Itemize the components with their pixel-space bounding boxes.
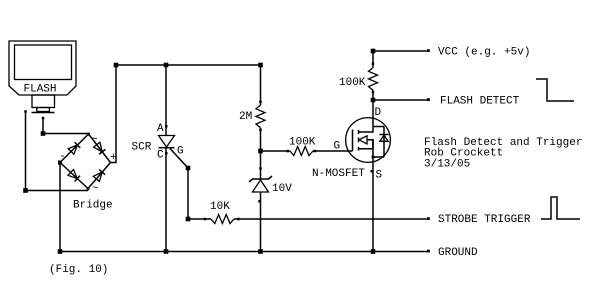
terminal dot source <box>371 170 374 173</box>
node divider junction <box>258 149 263 154</box>
svg-text:FLASH: FLASH <box>24 84 57 96</box>
wire ground rail <box>60 251 429 253</box>
bridge rectifier edge bottom-right <box>88 163 111 189</box>
junction ground-zener <box>258 249 263 254</box>
svg-text:G: G <box>177 146 184 158</box>
mosfet Q1 body diode triangle <box>380 135 388 141</box>
SCR U1 cathode bar <box>159 147 175 149</box>
wire to bridge AC top vertex <box>43 133 89 135</box>
wire flash detect line <box>373 99 429 101</box>
mosfet Q1 body diode link bottom <box>373 156 384 158</box>
junction ground-source <box>371 249 376 254</box>
junction source-body diode <box>372 156 375 159</box>
svg-text:-: - <box>59 151 66 163</box>
wire top rail <box>116 64 261 66</box>
mosfet Q1 channel dash drain <box>358 130 360 134</box>
terminal dot R1 left <box>204 218 207 221</box>
terminal tick ground stub end <box>427 250 430 253</box>
svg-text:FLASH DETECT: FLASH DETECT <box>440 96 520 108</box>
node AC top vertex dot <box>87 133 90 136</box>
mosfet Q1 body arrow <box>359 136 367 144</box>
terminal dot flash left lead <box>24 110 27 113</box>
junction ground-bridge <box>58 249 63 254</box>
terminal dot zener bottom <box>258 200 261 203</box>
bridge rectifier edge top-left <box>60 134 89 163</box>
diode D1 upper-left (minus to AC top) <box>68 142 80 154</box>
mosfet Q1 channel dash source <box>358 147 360 151</box>
svg-text:10K: 10K <box>210 201 230 213</box>
svg-text:3/13/05: 3/13/05 <box>424 158 470 170</box>
mosfet Q1 channel dash body <box>358 138 360 143</box>
SCR U1 triangle <box>159 136 175 148</box>
wire bridge plus up to top rail <box>111 65 117 163</box>
junction SCR anode on top rail <box>164 63 169 68</box>
resistor R3 100K zigzag <box>290 147 313 156</box>
SCR gate lead diagonal <box>170 149 188 169</box>
junction left rail corner <box>23 188 28 193</box>
wire to resistor R1 <box>188 218 211 220</box>
svg-text:G: G <box>334 141 341 153</box>
svg-text:(Fig. 10): (Fig. 10) <box>49 264 108 276</box>
wire node down to zener <box>260 151 262 180</box>
mosfet Q1 body diode bar <box>380 134 389 136</box>
svg-text:VCC (e.g. +5v): VCC (e.g. +5v) <box>438 47 530 59</box>
wire mosfet source to ground <box>372 140 374 252</box>
waveform flash detect falling step <box>536 79 574 101</box>
flash unit head outline <box>9 41 76 95</box>
wire VCC line <box>373 50 429 52</box>
mosfet Q1 gate bar <box>352 130 354 152</box>
terminal dot 2M top <box>259 101 262 104</box>
flash unit window <box>15 45 72 80</box>
svg-text:N-MOSFET: N-MOSFET <box>312 168 365 180</box>
mosfet Q1 source inner stub <box>359 148 374 150</box>
node AC bottom vertex dot <box>87 187 90 190</box>
terminal dot SCR anode <box>165 125 168 128</box>
zener D5 triangle <box>253 180 269 192</box>
junction flash right corner <box>41 131 46 136</box>
svg-text:2M: 2M <box>239 111 252 123</box>
terminal dot zener top <box>259 167 262 170</box>
wire flash left lead down <box>25 111 27 191</box>
mosfet Q1 body diode vertical <box>383 127 385 158</box>
junction SCR gate corner <box>186 166 191 171</box>
bridge rectifier edge top-right <box>89 134 111 163</box>
mosfet Q1 body arrow tail <box>367 140 373 149</box>
wire 2M bottom lead <box>260 128 262 151</box>
wire node to resistor R3 <box>261 150 291 152</box>
svg-text:D: D <box>375 107 382 119</box>
terminal dot R4 top <box>372 63 375 66</box>
terminal tick strobe stub end <box>427 217 430 220</box>
svg-text:A: A <box>157 123 164 135</box>
node minus vertex dot <box>58 161 62 165</box>
svg-text:C: C <box>157 150 164 162</box>
flash unit neck <box>32 95 55 108</box>
wire to bridge AC bottom vertex <box>26 190 89 192</box>
junction 2M top on rail <box>258 63 263 68</box>
diode D3 lower-left (minus to AC bottom) <box>68 170 80 182</box>
wire bridge minus down to ground <box>59 163 61 252</box>
wire R4 bottom lead <box>372 90 374 100</box>
svg-text:STROBE TRIGGER: STROBE TRIGGER <box>438 214 531 226</box>
wire zener anode to ground <box>260 192 262 252</box>
wire R3 to mosfet gate <box>313 150 353 152</box>
svg-text:Bridge: Bridge <box>73 200 113 212</box>
svg-text:100K: 100K <box>339 77 366 89</box>
bridge rectifier edge bottom-left <box>60 163 88 189</box>
terminal tick flash detect stub end <box>427 98 430 101</box>
diode D4 lower-right (AC bottom to plus) <box>93 169 105 181</box>
diode D2 upper-right (AC top to plus) <box>94 142 106 154</box>
junction strobe corner <box>186 217 191 222</box>
terminal dot flash right lead <box>42 117 45 120</box>
terminal dot 2M bottom <box>259 129 262 132</box>
svg-text:100K: 100K <box>289 137 316 149</box>
wire SCR cathode to ground <box>165 148 167 252</box>
flash unit plug <box>37 108 50 112</box>
resistor R1 10K zigzag <box>211 215 234 224</box>
junction VCC corner <box>371 49 376 54</box>
terminal dot SCR cathode <box>165 152 168 155</box>
terminal tick VCC stub end <box>427 49 430 52</box>
wire gate down to strobe line <box>187 168 189 219</box>
wire strobe trigger line <box>234 218 429 220</box>
svg-text:SCR: SCR <box>132 142 152 154</box>
junction drain / flash detect <box>371 98 376 103</box>
mosfet Q1 envelope circle <box>346 118 391 163</box>
wire bridge bottom vertex stub <box>87 189 89 191</box>
flash unit plug bar <box>32 112 55 114</box>
wire R4 top lead <box>372 51 374 68</box>
svg-text:10V: 10V <box>272 183 292 195</box>
terminal dot R4 bottom <box>372 91 375 94</box>
waveform strobe trigger pulse <box>541 197 580 219</box>
terminal dot R3 left <box>287 150 290 153</box>
svg-text:S: S <box>376 170 383 182</box>
junction ground-SCR <box>164 249 169 254</box>
svg-text:~: ~ <box>91 134 98 146</box>
mosfet Q1 body diode link top <box>373 126 384 128</box>
terminal dot R1 right <box>237 218 240 221</box>
svg-text:~: ~ <box>92 183 99 195</box>
junction top rail left corner <box>114 63 119 68</box>
wire 2M top lead <box>260 65 262 105</box>
resistor R4 100K pullup zigzag <box>369 68 378 91</box>
terminal dot R3 right <box>314 150 317 153</box>
zener D5 cathode bar with tails <box>249 176 272 182</box>
svg-text:GROUND: GROUND <box>438 247 478 259</box>
wire SCR anode <box>165 65 167 136</box>
resistor R2 2M zigzag <box>256 105 265 128</box>
wire flash right lead down <box>42 118 44 134</box>
mosfet Q1 drain inner stub <box>359 100 374 132</box>
